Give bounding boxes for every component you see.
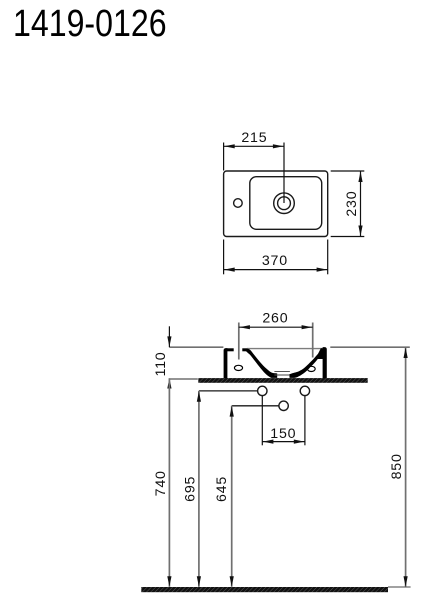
- arrow 370 left: [224, 268, 235, 272]
- front view: rim back edge line across bowl: [247, 348, 322, 350]
- extension line bottom-right: [327, 240, 329, 275]
- shelf level extension line: [169, 378, 197, 380]
- arrow 260 right: [302, 325, 313, 329]
- front view: drain recess lines: [274, 371, 290, 373]
- front view: rim ledge strip right part (after tap hole gap): [242, 348, 249, 351]
- dimension 695 line: [198, 391, 200, 587]
- dim line 230: [360, 171, 362, 237]
- extension line right down to drain center: [283, 143, 285, 204]
- dimension 740 line: [168, 378, 170, 587]
- svg-text:110: 110: [153, 351, 169, 376]
- drain hole level extension line: [232, 405, 279, 407]
- svg-text:850: 850: [389, 453, 405, 479]
- arrow 215 left: [224, 144, 235, 148]
- title model number: [13, 5, 167, 43]
- extension line left at basin edge: [223, 143, 225, 171]
- arrow 695 bottom: [197, 576, 201, 587]
- front view: rim ledge strip left part (up to tap hole gap): [227, 348, 234, 351]
- dimension 850 line: [405, 347, 407, 587]
- front view: left mounting hole ellipse: [234, 365, 242, 370]
- front view: left wall (section): [224, 348, 228, 379]
- arrow 215 right: [273, 144, 284, 148]
- extension line bottom-left: [223, 240, 225, 275]
- dimension 230: [331, 171, 365, 237]
- svg-text:260: 260: [262, 311, 288, 327]
- svg-text:150: 150: [270, 426, 296, 442]
- dimension 215: [224, 143, 284, 204]
- dim line 150: [262, 441, 305, 443]
- extension line left: [238, 323, 240, 360]
- svg-text:370: 370: [262, 253, 288, 269]
- extension line bottom right of rect: [331, 236, 365, 238]
- dimension 260: [239, 323, 313, 360]
- top view: tap hole circle: [234, 199, 243, 208]
- dim line 370: [224, 269, 328, 271]
- arrow 645 bottom: [230, 576, 234, 587]
- top view: basin outer rim rectangle: [224, 171, 328, 237]
- wall shelf hatched bar: [198, 378, 367, 383]
- front view: right wall (section): [323, 347, 327, 379]
- dimension 110: [168, 326, 170, 347]
- extension line from right supply hole: [304, 396, 306, 445]
- rim level extension line right: [330, 346, 410, 348]
- extension line right: [312, 323, 314, 358]
- arrow 260 left: [239, 325, 250, 329]
- supply hole circle right: [300, 386, 309, 395]
- arrow 370 right: [317, 268, 328, 272]
- dimension 645 line: [231, 406, 233, 587]
- top view: drain outer circle: [274, 193, 295, 214]
- top view: drain inner circle: [278, 197, 291, 210]
- extension line top right of rect: [331, 170, 365, 172]
- arrow 110 top (pointing down): [167, 336, 171, 347]
- arrow 150 left: [263, 440, 274, 444]
- svg-text:645: 645: [214, 476, 230, 502]
- arrow 850 top: [404, 347, 408, 358]
- supply hole circle left: [258, 386, 267, 395]
- arrow 110 bottom (pointing up, shared with 740): [167, 378, 171, 389]
- svg-text:740: 740: [153, 470, 169, 496]
- dimension 370: [224, 240, 328, 275]
- arrow 695 top: [197, 391, 201, 402]
- front view: right mounting hole ellipse: [307, 366, 315, 371]
- extension line from left supply hole: [261, 396, 263, 445]
- dim line 260: [239, 326, 313, 328]
- top view: inner bowl rounded rectangle: [250, 177, 322, 230]
- front view: basin curve left branch: [246, 348, 277, 378]
- floor thin extension to right: [388, 586, 411, 588]
- floor hatched bar: [141, 587, 388, 592]
- dim line 215: [224, 145, 284, 147]
- arrow 230 top: [358, 171, 362, 182]
- dimension 150: [262, 396, 305, 445]
- svg-text:230: 230: [344, 191, 360, 217]
- front view: basin curve right branch: [289, 349, 323, 378]
- supply holes level extension line: [199, 390, 258, 392]
- drain hole circle middle: [279, 401, 288, 410]
- arrow 150 right: [294, 440, 305, 444]
- svg-text:215: 215: [241, 130, 267, 146]
- arrow 850 bottom: [404, 576, 408, 587]
- arrow 645 top: [230, 406, 234, 417]
- svg-text:695: 695: [182, 476, 198, 502]
- front view: wedge fill where curve meets right wall: [316, 348, 325, 359]
- rim level extension line left: [169, 346, 223, 348]
- arrow 230 bottom: [358, 226, 362, 237]
- arrow 740 bottom: [167, 576, 171, 587]
